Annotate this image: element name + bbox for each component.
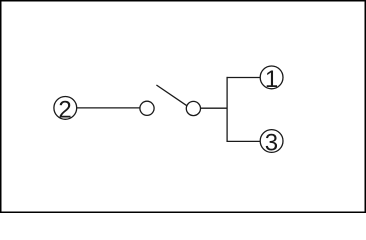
wire to terminal 3 [227,140,261,142]
wire from right contact to junction [201,107,228,109]
terminal circle 1 [260,66,283,93]
wire from terminal 2 to left contact [77,107,140,109]
wire to terminal 1 [227,77,261,79]
svg-text:1: 1 [265,66,278,93]
terminal circle 3 [260,130,283,157]
right fixed contact [186,101,200,115]
terminal circle 2 [54,96,77,123]
vertical wire joining branches [226,77,228,142]
svg-text:2: 2 [58,96,71,123]
svg-text:3: 3 [265,130,278,157]
switch lever (movable contact arm) [156,85,187,106]
left fixed contact [140,101,154,115]
